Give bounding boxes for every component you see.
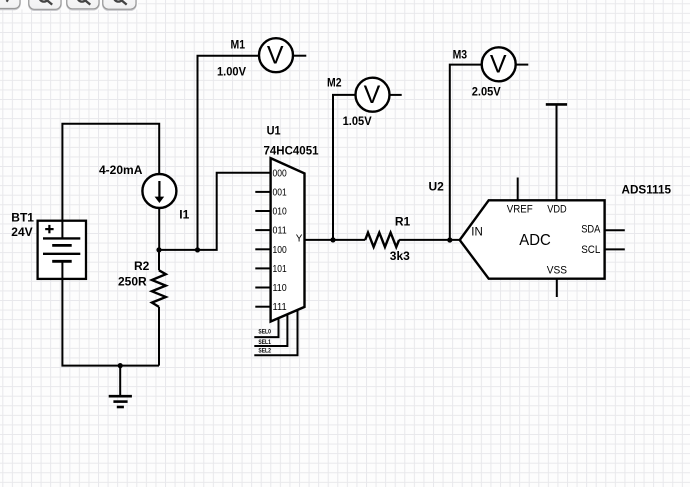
svg-text:VDD: VDD — [547, 204, 567, 216]
svg-text:I1: I1 — [179, 207, 189, 221]
svg-text:V: V — [490, 51, 507, 79]
svg-text:74HC4051: 74HC4051 — [264, 143, 319, 157]
svg-text:SEL0: SEL0 — [258, 328, 271, 335]
svg-text:3k3: 3k3 — [390, 249, 410, 263]
svg-text:SEL1: SEL1 — [258, 339, 271, 346]
svg-text:101: 101 — [273, 264, 287, 275]
svg-text:U1: U1 — [267, 124, 281, 138]
svg-text:M1: M1 — [231, 38, 246, 52]
svg-text:000: 000 — [273, 168, 287, 179]
svg-text:011: 011 — [273, 226, 287, 237]
svg-text:V: V — [267, 41, 284, 69]
svg-text:R2: R2 — [134, 259, 150, 273]
svg-text:V: V — [364, 81, 381, 109]
svg-text:VSS: VSS — [547, 264, 567, 276]
svg-text:110: 110 — [273, 283, 287, 294]
svg-text:M3: M3 — [453, 48, 468, 62]
svg-text:IN: IN — [471, 227, 483, 239]
svg-text:SCL: SCL — [581, 244, 600, 256]
svg-text:111: 111 — [273, 302, 287, 313]
svg-text:24V: 24V — [11, 225, 32, 239]
svg-text:1.00V: 1.00V — [217, 64, 246, 78]
svg-text:BT1: BT1 — [11, 211, 34, 225]
svg-text:SDA: SDA — [581, 224, 601, 236]
svg-text:001: 001 — [273, 187, 287, 198]
svg-text:2.05V: 2.05V — [472, 85, 501, 99]
svg-text:4-20mA: 4-20mA — [99, 163, 143, 177]
svg-text:250R: 250R — [118, 274, 147, 288]
svg-text:U2: U2 — [429, 180, 445, 194]
svg-text:R1: R1 — [395, 214, 411, 228]
svg-text:010: 010 — [273, 207, 287, 218]
svg-text:SEL2: SEL2 — [258, 347, 271, 354]
svg-text:VREF: VREF — [507, 204, 533, 216]
svg-text:ADC: ADC — [519, 232, 551, 249]
svg-text:100: 100 — [273, 245, 287, 256]
svg-text:M2: M2 — [327, 76, 342, 90]
svg-text:Y: Y — [296, 234, 303, 245]
svg-text:ADS1115: ADS1115 — [622, 183, 672, 197]
svg-text:1.05V: 1.05V — [343, 114, 372, 128]
